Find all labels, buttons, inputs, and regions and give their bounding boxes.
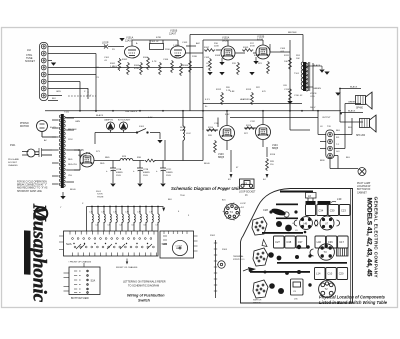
node arrow V104 cathode [266, 174, 269, 178]
svg-text:C110 .02: C110 .02 [294, 95, 303, 97]
capacitor C28 tubular [271, 207, 289, 217]
svg-text:AC: AC [44, 139, 47, 142]
svg-text:150V: 150V [143, 175, 148, 177]
wire chassis shield bar2 [262, 232, 303, 234]
svg-text:C103: C103 [182, 42, 188, 44]
svg-text:DIAL LAMPS: DIAL LAMPS [125, 110, 138, 113]
svg-text:CABINET: CABINET [357, 191, 367, 194]
svg-text:10K: 10K [284, 61, 288, 63]
svg-text:MOTOR: MOTOR [20, 125, 29, 128]
connector terminal strip no1 [214, 240, 225, 298]
svg-text:VOICE: VOICE [310, 93, 317, 95]
svg-text:150V: 150V [166, 175, 171, 177]
ground S101 [157, 140, 162, 143]
svg-text:T2OR: T2OR [97, 194, 103, 196]
svg-text:SHOWN BY DASH LINE: SHOWN BY DASH LINE [17, 190, 42, 193]
svg-text:4.7K: 4.7K [152, 61, 157, 63]
svg-text:R115: R115 [246, 125, 252, 127]
connector terminal strip [326, 130, 334, 159]
svg-text:Schematic Diagram of Power Uni: Schematic Diagram of Power Unit [171, 186, 240, 191]
svg-text:FIELD: FIELD [180, 130, 186, 132]
capacitor block row C27 C38 C37 [274, 236, 285, 248]
svg-text:C112: C112 [250, 121, 256, 123]
svg-text:C101: C101 [104, 57, 110, 59]
dark dot groups chassis [264, 210, 312, 286]
logo Musaphonic script (rotated) [24, 203, 50, 303]
node junction dots coil bus [91, 206, 159, 208]
capacitor can box [306, 205, 316, 216]
connector J3 loop socket [240, 179, 255, 189]
logo banner by General Electric [24, 230, 31, 274]
svg-text:GRN: GRN [56, 91, 61, 93]
ground V102A cathode triangle [219, 62, 224, 65]
label GENERAL ELECTRIC COMPANY (rotated) [373, 197, 379, 279]
svg-text:R102: R102 [122, 59, 128, 61]
svg-text:L30: L30 [337, 197, 342, 201]
svg-text:L14: L14 [316, 272, 321, 276]
node junction dots B+ bus [79, 88, 342, 115]
svg-text:LOCATED AT: LOCATED AT [357, 185, 371, 188]
small arrow near wafer1 [262, 240, 267, 247]
svg-text:by GENERAL ELECTRIC: by GENERAL ELECTRIC [24, 233, 28, 268]
wire speaker leads [340, 88, 361, 90]
svg-text:FRONT OF CHASSIS: FRONT OF CHASSIS [116, 266, 138, 269]
switch S101 on-off [136, 129, 148, 134]
svg-text:115V: 115V [68, 139, 73, 141]
capacitor C27B electrolytic [137, 168, 143, 183]
lamp E101 dial [107, 122, 115, 133]
svg-text:R106: R106 [183, 65, 189, 67]
lamp E102 dial [120, 122, 128, 133]
svg-text:REC: REC [176, 248, 181, 250]
svg-text:T100: T100 [180, 195, 186, 197]
svg-text:RED: RED [100, 163, 105, 165]
svg-text:E2 SOCKET: E2 SOCKET [118, 120, 131, 122]
svg-text:Physical Location of Component: Physical Location of Components [319, 295, 386, 300]
coil L12 dot [269, 283, 275, 289]
svg-text:L40: L40 [317, 240, 322, 244]
svg-text:T100: T100 [64, 112, 70, 114]
label band coil designators [89, 211, 157, 227]
svg-text:140 V: 140 V [310, 107, 316, 109]
svg-text:R112: R112 [216, 89, 222, 91]
tube V104 output 6BQ5 [256, 125, 271, 140]
svg-text:SPKR: SPKR [180, 127, 186, 129]
inductor band coils L1-L12 [92, 214, 159, 222]
svg-text:220K: 220K [165, 49, 170, 51]
switch wafer W2 [253, 248, 268, 266]
svg-text:C23: C23 [341, 208, 346, 212]
svg-text:LETTERING ON TERMINALS REFER: LETTERING ON TERMINALS REFER [123, 281, 166, 284]
chassis right wall inner line [350, 189, 352, 303]
speaker SP400 [356, 92, 373, 109]
label front of chassis S2B [126, 259, 128, 263]
tube V102A pentode [221, 46, 235, 60]
svg-text:C110: C110 [284, 89, 290, 91]
svg-text:R103: R103 [222, 249, 228, 251]
svg-text:BROWN: BROWN [288, 32, 297, 34]
svg-text:BLK: BLK [168, 199, 173, 201]
svg-text:SP400: SP400 [356, 108, 364, 110]
ground V102A cathode [219, 72, 224, 75]
svg-text:RED-YEL: RED-YEL [78, 155, 88, 157]
svg-text:BLK: BLK [52, 98, 57, 100]
svg-text:C38: C38 [286, 240, 291, 244]
ground V102B cathode triangle [253, 61, 258, 64]
ground V101 grid [119, 38, 124, 41]
wire rectifier / filter [94, 160, 120, 162]
inductor L6 box [306, 193, 317, 202]
svg-text:BLK: BLK [348, 127, 353, 129]
capacitor block row C34 C30 C23 [317, 205, 328, 216]
svg-text:BLACK: BLACK [96, 114, 104, 117]
svg-text:220K: 220K [214, 46, 219, 48]
svg-text:WAFER: WAFER [253, 301, 261, 304]
svg-text:P101: P101 [10, 145, 16, 147]
node arrow bus feed [162, 208, 165, 212]
svg-text:T4: T4 [230, 210, 234, 214]
lamp pilot [358, 168, 366, 176]
svg-text:20MFD: 20MFD [166, 172, 173, 174]
svg-text:BRN: BRN [320, 160, 325, 162]
svg-text:R104: R104 [143, 57, 149, 59]
svg-text:1 MEG: 1 MEG [173, 45, 180, 47]
svg-text:Musaphonic: Musaphonic [29, 203, 50, 303]
svg-text:TERMINAL: TERMINAL [233, 255, 244, 258]
svg-text:C27B: C27B [143, 169, 149, 171]
svg-text:C3: C3 [107, 225, 109, 227]
svg-text:C7: C7 [155, 225, 157, 227]
capacitor block row L14 C10 C20 [315, 268, 326, 280]
resistor group if stage [204, 49, 291, 105]
svg-text:C108: C108 [280, 48, 286, 50]
label MODELS 41,42,43,44,45 (rotated) [366, 198, 373, 277]
svg-text:R114: R114 [208, 127, 214, 129]
chassis outline [240, 189, 352, 304]
svg-text:R105: R105 [174, 56, 180, 58]
wire chassis shield bar1 [276, 218, 298, 220]
socket T3 tube [310, 244, 334, 260]
svg-text:R-1: R-1 [241, 207, 244, 209]
capacitor C6 block [306, 201, 316, 204]
svg-text:R107: R107 [204, 47, 210, 49]
switch wafer W1 [252, 217, 267, 235]
svg-text:R110: R110 [254, 55, 260, 57]
ground socket pin3 [51, 63, 56, 66]
wire chassis bar4 [250, 271, 310, 273]
svg-text:BLK: BLK [336, 130, 341, 132]
wire pilot lamp feed [329, 158, 331, 169]
svg-text:6.3V: 6.3V [225, 114, 230, 116]
svg-text:BLUE: BLUE [204, 163, 210, 165]
wire B+ bus [45, 110, 341, 112]
svg-text:470K: 470K [156, 37, 162, 39]
svg-text:Listed in Band Switch Wiring T: Listed in Band Switch Wiring Table [319, 300, 388, 305]
inductor L30 block [318, 201, 331, 205]
svg-text:R103: R103 [134, 65, 140, 67]
svg-text:MODELS 41, 42, 43, 44, 45: MODELS 41, 42, 43, 44, 45 [366, 198, 373, 277]
svg-text:C28: C28 [263, 208, 268, 212]
ground C27B [137, 184, 142, 187]
svg-text:SOCKET: SOCKET [8, 162, 18, 164]
svg-text:COIL: COIL [310, 96, 316, 98]
resistor board hatched block [337, 248, 349, 256]
svg-text:40MFD: 40MFD [143, 172, 150, 174]
svg-text:PLUG AND: PLUG AND [8, 158, 19, 161]
svg-text:↑ FRONT OF CHASSIS: ↑ FRONT OF CHASSIS [68, 261, 92, 264]
svg-text:R111: R111 [284, 55, 290, 57]
capacitor C27A electrolytic [110, 168, 116, 183]
switch wafer W3 [253, 280, 268, 298]
svg-text:L4B: L4B [303, 223, 308, 226]
connector T4 socket bottom view [223, 202, 241, 220]
svg-text:V105: V105 [78, 149, 84, 152]
svg-text:STRIP NO.1: STRIP NO.1 [233, 259, 245, 261]
value labels extra [44, 41, 353, 251]
svg-text:C34: C34 [318, 208, 323, 212]
wire socket leads [48, 46, 105, 48]
switch S2A bottom view [64, 263, 101, 295]
socket T2 tube [319, 281, 336, 298]
switch S2B section [160, 231, 198, 258]
coil L11 dot [277, 256, 282, 261]
svg-text:R102: R102 [210, 235, 216, 237]
svg-text:T101: T101 [294, 73, 300, 75]
svg-text:C6: C6 [143, 225, 145, 227]
svg-text:10K: 10K [296, 58, 300, 60]
tube V105 rectifier 5Y3 [80, 153, 94, 167]
svg-text:S2A: S2A [66, 242, 72, 246]
svg-text:6AU6: 6AU6 [257, 39, 264, 42]
svg-text:HEATERS: HEATERS [240, 98, 250, 101]
resistor group output stage [145, 127, 269, 171]
svg-text:BLU: BLU [346, 157, 351, 159]
svg-text:J10: J10 [27, 49, 32, 52]
svg-text:150V: 150V [116, 175, 121, 177]
wire top bus BROWN [190, 34, 303, 36]
svg-text:40MFD: 40MFD [116, 172, 123, 174]
socket L4B tube [294, 217, 318, 230]
switch S2A section [59, 231, 158, 256]
svg-text:6AU6: 6AU6 [222, 40, 229, 43]
node LOOP terminal [104, 45, 108, 49]
resistor group input stage [118, 57, 191, 76]
wire transformer stubs [52, 118, 81, 196]
coil L8 dot [276, 221, 282, 227]
svg-text:RED-YEL: RED-YEL [68, 164, 78, 166]
svg-text:LOOP: LOOP [240, 203, 246, 205]
svg-text:1 MEG: 1 MEG [110, 66, 117, 68]
svg-text:C103 .02: C103 .02 [150, 41, 159, 43]
svg-text:GREEN: GREEN [313, 88, 321, 90]
svg-text:6.8K: 6.8K [230, 91, 235, 93]
svg-text:BREAK CONNECTION AT “Y”: BREAK CONNECTION AT “Y” [17, 184, 47, 187]
logo swash [35, 207, 48, 220]
wire chassis shield bar0 [276, 204, 298, 206]
svg-text:S2B: S2B [162, 242, 168, 246]
ground speaker frame [335, 93, 340, 96]
svg-text:C36: C36 [328, 240, 333, 244]
svg-text:R109: R109 [243, 47, 249, 49]
svg-text:TO SCHEMATIC DIAGRAM: TO SCHEMATIC DIAGRAM [128, 285, 159, 288]
svg-text:R116: R116 [270, 154, 276, 156]
node arrow V103 cathode [230, 174, 233, 178]
svg-text:BLACK: BLACK [313, 64, 321, 67]
svg-text:6BQ5: 6BQ5 [218, 156, 225, 159]
switch S2A contact rows [72, 231, 187, 248]
svg-text:470K: 470K [134, 68, 140, 70]
speaker SPK200 [360, 115, 377, 132]
svg-text:R113: R113 [246, 89, 252, 91]
svg-text:6.3 V: 6.3 V [205, 99, 210, 101]
svg-text:C104: C104 [163, 59, 169, 61]
svg-text:C105: C105 [204, 57, 210, 59]
coil L10 dot [268, 252, 274, 258]
motor phono B1 [37, 121, 57, 138]
svg-text:C20: C20 [339, 272, 344, 276]
connector P101 plug [22, 148, 52, 157]
note 50-cycle text [17, 181, 48, 193]
svg-text:C10: C10 [327, 272, 332, 276]
socket U7 tube [315, 216, 340, 230]
tube V101B triode [171, 46, 186, 58]
transformer T100 power [59, 114, 65, 188]
svg-text:S101: S101 [139, 126, 145, 128]
svg-text:470K: 470K [250, 46, 255, 48]
ground IF bypass [207, 72, 212, 75]
svg-text:TH-RE: TH-RE [97, 197, 104, 199]
tube V102B pentode [256, 45, 270, 59]
svg-text:6.3V: 6.3V [148, 117, 153, 119]
wire chassis bar3 [277, 262, 347, 264]
coil L13 dot [278, 288, 284, 294]
coil L9 dot [285, 225, 292, 232]
capacitor C27C electrolytic [160, 168, 166, 183]
svg-text:C27: C27 [275, 240, 280, 244]
svg-text:12AX7: 12AX7 [169, 33, 177, 36]
svg-text:BOTTOM VIEW: BOTTOM VIEW [71, 297, 89, 300]
svg-text:GRN: GRN [75, 121, 80, 123]
svg-text:LOOP SOCKET: LOOP SOCKET [239, 192, 256, 194]
ground C27A [110, 184, 115, 187]
ground transformer [60, 196, 65, 199]
wire output stage verticals [226, 111, 228, 126]
tube V103 output 6BQ5 [220, 126, 235, 141]
capacitor C9 box [291, 279, 304, 295]
svg-text:2.2K: 2.2K [226, 90, 231, 92]
svg-text:220K: 220K [192, 56, 198, 58]
svg-text:OUTPUT: OUTPUT [322, 117, 331, 119]
chassis rear apron bar [280, 191, 313, 193]
svg-text:RED: RED [68, 159, 73, 161]
svg-text:CHASSIS: CHASSIS [8, 164, 18, 167]
terminal strip pointer [248, 267, 256, 272]
ground T101 secondary [319, 70, 324, 73]
note pilot lamp text [357, 182, 371, 194]
svg-text:BLACK: BLACK [350, 86, 358, 89]
svg-text:AVC: AVC [196, 42, 201, 45]
svg-text:C27C: C27C [166, 169, 172, 171]
svg-text:C27A: C27A [116, 168, 122, 171]
svg-text:BLUE: BLUE [70, 189, 76, 191]
svg-text:C37: C37 [298, 240, 303, 244]
svg-text:LAMP E1: LAMP E1 [104, 119, 114, 122]
svg-text:Wiring of Pushbutton: Wiring of Pushbutton [127, 294, 165, 298]
svg-text:C30: C30 [330, 208, 335, 212]
svg-text:R101: R101 [110, 63, 116, 65]
svg-text:R108: R108 [215, 55, 221, 57]
svg-text:AND RECONNECT TO “X” AS: AND RECONNECT TO “X” AS [17, 187, 48, 190]
svg-text:SPK 200: SPK 200 [356, 135, 366, 137]
svg-text:C17: C17 [339, 240, 344, 244]
ground C110 [287, 101, 292, 104]
svg-text:6BQ5: 6BQ5 [272, 147, 279, 150]
value labels [64, 32, 358, 191]
tube V101A triode [125, 46, 140, 58]
inductor L102 speaker field [183, 111, 185, 161]
wire V102B plate link [269, 44, 271, 52]
svg-text:RED: RED [105, 157, 110, 159]
svg-text:GREEN: GREEN [348, 102, 356, 104]
svg-text:12AX7: 12AX7 [125, 40, 133, 43]
svg-text:S2A: S2A [91, 280, 96, 283]
transformer T101 output [301, 62, 322, 91]
ground C27C [160, 184, 165, 187]
capacitor block row L40 C36 C17 [315, 236, 326, 248]
svg-text:BLACK: BLACK [348, 110, 356, 113]
connector J10 control-tune socket [40, 43, 48, 101]
wire switch coil bus [87, 207, 164, 232]
svg-text:SWITCH: SWITCH [253, 300, 262, 302]
svg-text:C4: C4 [119, 225, 121, 227]
svg-text:C5: C5 [131, 225, 133, 227]
wire grid/plate links V102 [203, 39, 263, 41]
svg-text:BOTTOM OF: BOTTOM OF [357, 189, 371, 191]
svg-text:FOR 50 CYCLE OPERATION: FOR 50 CYCLE OPERATION [17, 181, 47, 184]
svg-text:Switch: Switch [138, 299, 151, 303]
wire 50-cycle dashed X-Y [68, 88, 96, 96]
inductor L100 filter choke [120, 159, 133, 161]
wire plate links V101 [132, 39, 178, 41]
svg-text:60 CY: 60 CY [50, 127, 56, 129]
svg-text:C2: C2 [95, 225, 97, 227]
ground V102B cathode [249, 72, 254, 75]
ground T101 [324, 72, 329, 75]
svg-text:PILOT LAMP: PILOT LAMP [357, 182, 371, 185]
svg-text:SOCKET: SOCKET [25, 60, 35, 63]
svg-text:LOOP: LOOP [102, 43, 109, 45]
